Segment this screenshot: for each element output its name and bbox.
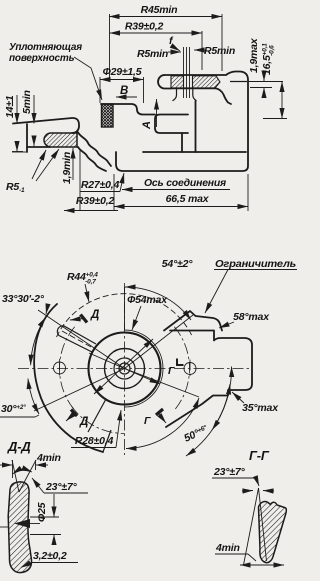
svg-text:R5min: R5min xyxy=(204,45,235,57)
svg-text:4min: 4min xyxy=(36,452,61,464)
blade (hatched) xyxy=(259,502,287,563)
svg-text:R39±0,2: R39±0,2 xyxy=(76,195,115,207)
part: cap inner top line xyxy=(230,81,247,83)
arc 58deg xyxy=(186,367,232,457)
part: inner vertical body line xyxy=(195,101,197,152)
part: slot xyxy=(155,115,188,134)
middle circle xyxy=(105,349,145,389)
arc 50deg xyxy=(126,398,199,449)
svg-text:В: В xyxy=(120,85,128,97)
leader of seal label xyxy=(74,57,102,100)
part: left flange top edge xyxy=(13,118,79,133)
part: bar top / cap outline xyxy=(116,72,248,172)
svg-text:Ось соединения: Ось соединения xyxy=(144,178,226,189)
part: hub socket left wall xyxy=(173,88,177,101)
part: tongue bar left rounded end xyxy=(158,75,171,89)
svg-text:поверхность: поверхность xyxy=(9,53,75,64)
part: flange bottom line xyxy=(27,146,50,148)
part: hub left hatch block xyxy=(171,76,184,88)
limiter tooth outline xyxy=(164,311,222,331)
part: inner horizontal body line xyxy=(143,151,246,153)
svg-text:58°max: 58°max xyxy=(233,311,270,323)
blade (hatched) xyxy=(8,482,31,573)
arc 33deg30 xyxy=(31,317,46,365)
part: flange hatched block xyxy=(44,133,77,147)
radial leg 30deg low-left xyxy=(34,369,125,412)
part: flange left edge xyxy=(26,124,28,152)
part: hub right hatch block xyxy=(193,76,221,88)
svg-text:Ф29±1,5: Ф29±1,5 xyxy=(103,66,142,78)
svg-text:Ф25: Ф25 xyxy=(36,502,48,522)
F54 outer ring arc xyxy=(125,330,164,407)
part: step line right of seal xyxy=(101,104,155,115)
part: hub socket right wall xyxy=(193,88,197,101)
svg-text:Ограничитель: Ограничитель xyxy=(215,259,296,270)
dim 16.5 (rotated with tolerances) xyxy=(261,43,276,75)
diagonal arrow line through center xyxy=(94,339,153,394)
svg-text:Д-Д: Д-Д xyxy=(7,439,31,454)
vertical centerline xyxy=(124,283,126,455)
part: bellows neck outer xyxy=(77,131,111,166)
tab inner small step xyxy=(177,359,184,366)
svg-text:35°max: 35°max xyxy=(242,402,279,414)
right tab outline xyxy=(166,331,252,428)
svg-text:R28±0,4: R28±0,4 xyxy=(75,435,114,447)
radial leg 33deg xyxy=(38,310,125,369)
left fan outer boundary xyxy=(34,304,103,452)
radial leg 50deg low-right xyxy=(125,369,200,398)
svg-text:Г: Г xyxy=(144,415,151,427)
centerline stub xyxy=(0,526,8,528)
main bold circle xyxy=(89,333,161,405)
svg-text:1,9max: 1,9max xyxy=(248,37,260,73)
part: seal column (cross-hatched) xyxy=(102,104,114,127)
svg-text:54°±2°: 54°±2° xyxy=(162,258,193,270)
svg-text:33°30'-2°: 33°30'-2° xyxy=(2,293,45,305)
svg-text:R45min: R45min xyxy=(141,4,178,16)
hole right xyxy=(184,363,196,375)
svg-text:5min: 5min xyxy=(21,90,33,114)
svg-text:R39±0,2: R39±0,2 xyxy=(125,21,164,33)
part: bellows neck inner xyxy=(78,147,106,171)
svg-text:14±1: 14±1 xyxy=(4,95,16,118)
ext line left of R45/R39 xyxy=(109,14,111,78)
arc 54deg xyxy=(125,287,191,320)
part: inner vertical from slot xyxy=(181,133,183,152)
svg-text:R5min: R5min xyxy=(137,48,168,60)
arc 30deg xyxy=(28,379,39,415)
angle legs 23deg xyxy=(12,460,19,492)
svg-text:23°±7°: 23°±7° xyxy=(213,466,245,478)
svg-text:Г-Г: Г-Г xyxy=(249,448,270,463)
ext line right R45 xyxy=(221,14,223,71)
angle arrows at vertex xyxy=(242,490,253,493)
fan bottom inner line xyxy=(103,430,111,452)
angle arrows xyxy=(13,470,33,474)
part: lower step line xyxy=(12,151,27,153)
svg-text:66,5 max: 66,5 max xyxy=(166,193,210,205)
thin stem lines under f xyxy=(183,47,185,98)
horizontal centerline xyxy=(18,368,252,370)
fan upper slot (two lines with round cap) xyxy=(57,326,96,352)
radial leg 54deg xyxy=(125,315,194,369)
svg-text:Д: Д xyxy=(79,416,88,428)
dashed arc R75 xyxy=(57,294,193,337)
part: right S-curve to body xyxy=(216,88,232,104)
svg-text:4min: 4min xyxy=(215,542,240,554)
svg-text:23°±7°: 23°±7° xyxy=(45,481,77,493)
cap inner top ref line xyxy=(248,81,283,83)
svg-text:А: А xyxy=(141,121,153,130)
part: bar bottom line under hub xyxy=(171,87,216,89)
arc 35deg xyxy=(212,384,230,430)
ext for 54 vertical xyxy=(124,287,126,330)
svg-text:1,9min: 1,9min xyxy=(61,152,73,184)
svg-text:Уплотняющая: Уплотняющая xyxy=(9,42,82,53)
hole left xyxy=(54,362,66,374)
angle legs xyxy=(244,488,259,565)
center hole xyxy=(119,363,130,374)
svg-text:Д: Д xyxy=(90,309,99,321)
bolt circle (dash-dot arcs) xyxy=(59,327,74,411)
fan lower radial edge xyxy=(88,399,106,432)
inner arrow xyxy=(14,519,30,528)
hub circle xyxy=(114,358,135,379)
slot hidden dash line xyxy=(62,331,93,348)
svg-text:Ф54max: Ф54max xyxy=(127,294,168,306)
svg-text:3,2±0,2: 3,2±0,2 xyxy=(33,550,67,562)
svg-text:Г: Г xyxy=(168,365,175,377)
diagonal arrow line right-down xyxy=(89,353,160,384)
